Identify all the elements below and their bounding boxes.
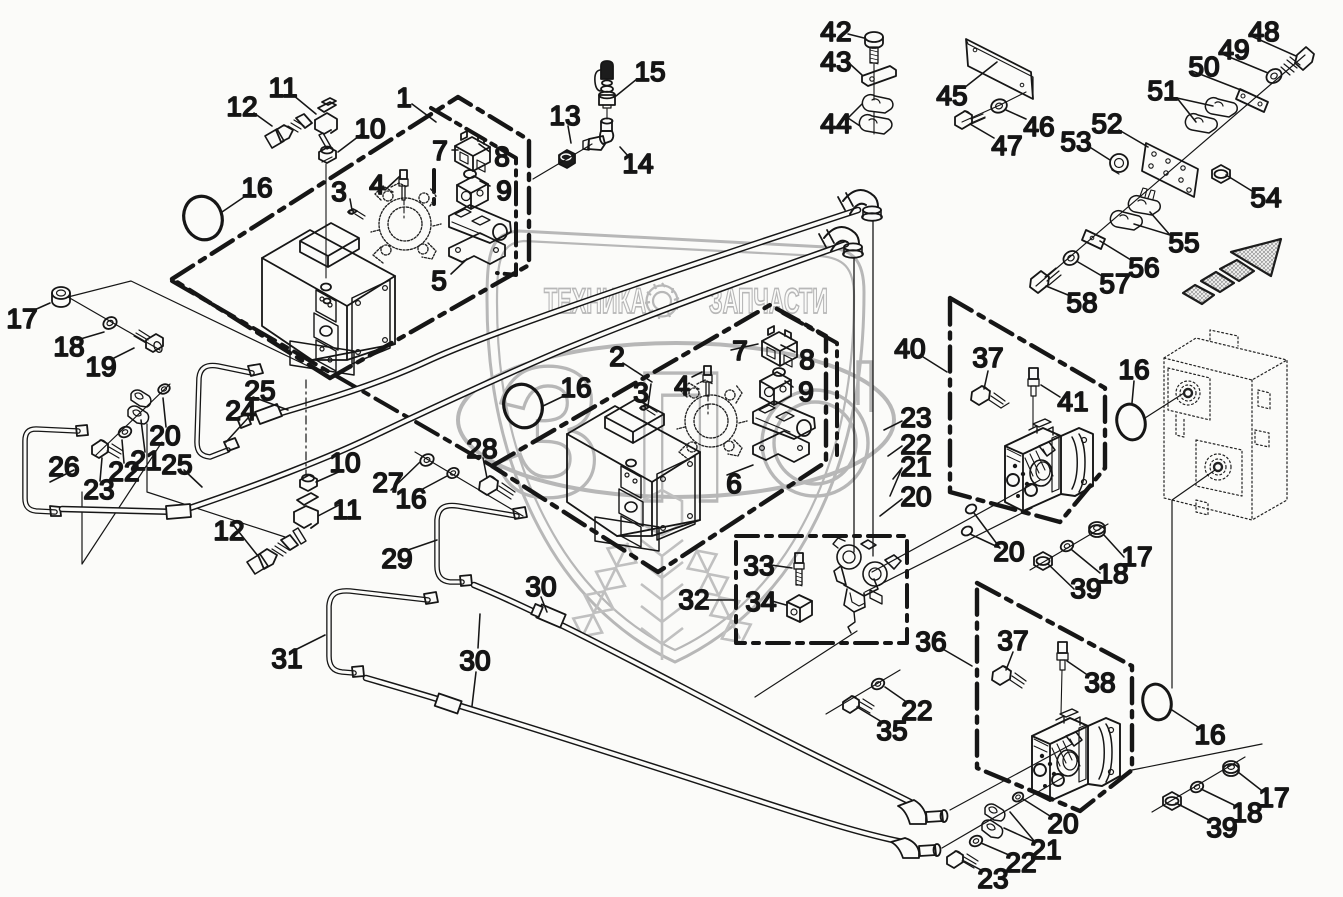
- svg-text:16: 16: [395, 483, 426, 514]
- stem 15 to 14: [606, 109, 608, 119]
- axis line 58-48: [1036, 55, 1305, 286]
- bolt 19: [134, 330, 164, 354]
- axis line 27-28-tube29: [415, 452, 523, 516]
- part 7/8 solenoid group1: [455, 131, 490, 172]
- valve body group2: [753, 401, 815, 439]
- svg-text:21: 21: [130, 445, 161, 476]
- svg-text:41: 41: [1057, 386, 1088, 417]
- drop line elbow A to valve assembly: [872, 221, 874, 556]
- fitting 15: [595, 61, 615, 108]
- valve block 1: [262, 223, 395, 375]
- centerline part4 group1: [403, 200, 405, 218]
- svg-text:4: 4: [674, 370, 690, 401]
- bolt 42: [865, 32, 883, 64]
- svg-text:26: 26: [48, 451, 79, 482]
- elbow 14: [583, 118, 613, 150]
- bolt 23 bottom: [947, 851, 978, 868]
- group 1 inner bracket: [431, 108, 516, 275]
- bolt 33: [794, 553, 804, 586]
- elbow 11 lower: [293, 493, 318, 544]
- axis lines hoses30 to pump B: [942, 744, 1072, 848]
- tube 26 (bent pipe): [25, 429, 78, 512]
- bracket V line lower-left: [82, 442, 162, 564]
- hose 25 lower crimp fitting: [166, 504, 191, 519]
- crimp on hose 30a: [531, 602, 566, 627]
- bolt 35: [843, 696, 874, 713]
- svg-text:1: 1: [396, 82, 412, 113]
- svg-text:56: 56: [1128, 252, 1159, 283]
- fitting 12 lower: [247, 535, 298, 574]
- O-ring 16 group2: [498, 379, 548, 433]
- axis line 17-19: [68, 297, 160, 350]
- svg-text:13: 13: [549, 100, 580, 131]
- svg-text:31: 31: [271, 643, 302, 674]
- nut 39 pump A: [1034, 552, 1052, 570]
- svg-text:42: 42: [820, 16, 851, 47]
- svg-text:21: 21: [900, 451, 931, 482]
- tube 26 end nuts: [50, 425, 88, 516]
- centerline to fitting 10 lower: [305, 380, 307, 474]
- washer 27: [418, 452, 436, 468]
- svg-text:19: 19: [85, 351, 116, 382]
- svg-text:10: 10: [329, 447, 360, 478]
- watermark shield inner: [497, 241, 854, 650]
- svg-text:9: 9: [496, 175, 512, 206]
- centerline part4 group2: [707, 396, 709, 414]
- hose 30 upper elbow end: [898, 800, 948, 824]
- hose 30 upper: [474, 585, 918, 806]
- svg-text:47: 47: [991, 130, 1022, 161]
- svg-text:25: 25: [161, 449, 192, 480]
- tube 29 (bent pipe): [437, 506, 517, 582]
- washer 46: [989, 97, 1008, 115]
- tank leader vertical: [1172, 470, 1215, 688]
- washer 18 bottom: [1189, 780, 1205, 795]
- plate 43: [862, 66, 896, 86]
- elbow fitting top A: [838, 190, 882, 221]
- ghost pump face group2 (dotted): [677, 380, 747, 460]
- group 2 inner bracket right edge: [783, 313, 837, 455]
- svg-text:5: 5: [431, 265, 447, 296]
- svg-text:22: 22: [901, 695, 932, 726]
- group box 36 (dash-dot): [977, 583, 1132, 811]
- washer 49: [1264, 66, 1285, 86]
- svg-text:6: 6: [726, 468, 742, 499]
- link line box1 to box2: [172, 281, 492, 466]
- svg-text:8: 8: [799, 344, 815, 375]
- watermark wheat emblem: [568, 490, 756, 660]
- nut 54: [1212, 165, 1230, 183]
- clamp 44 lower: [859, 115, 892, 134]
- fitting 10 lower: [300, 475, 317, 492]
- ring 16 small: [445, 466, 460, 480]
- svg-text:24: 24: [225, 395, 256, 426]
- axis line 13-14: [533, 144, 592, 179]
- svg-text:3: 3: [331, 176, 347, 207]
- svg-text:29: 29: [381, 543, 412, 574]
- part 6 bracket group2: [753, 431, 809, 462]
- svg-text:22: 22: [1005, 847, 1036, 878]
- svg-text:30: 30: [459, 645, 490, 676]
- fitting 41: [1028, 368, 1039, 428]
- drop line elbow B to valve assembly: [853, 258, 855, 552]
- plate 52: [1142, 143, 1198, 197]
- svg-text:44: 44: [820, 108, 851, 139]
- svg-text:10: 10: [354, 113, 385, 144]
- group box 2 (dash-dot): [492, 305, 826, 572]
- washer 18 pump A: [1059, 539, 1075, 554]
- group box 32 (dashed rectangle): [736, 536, 907, 643]
- svg-text:2: 2: [609, 341, 625, 372]
- svg-text:20: 20: [993, 536, 1024, 567]
- svg-text:48: 48: [1248, 16, 1279, 47]
- fitting 38: [1057, 642, 1068, 714]
- svg-text:51: 51: [1147, 75, 1178, 106]
- svg-text:3: 3: [633, 377, 649, 408]
- watermark big letters ZPCH: [494, 328, 871, 541]
- svg-text:16: 16: [1194, 719, 1225, 750]
- svg-text:20: 20: [900, 481, 931, 512]
- bracket line 17 to block: [68, 281, 310, 367]
- tube 31 (bent pipe): [329, 591, 428, 673]
- svg-text:37: 37: [997, 625, 1028, 656]
- line asm to hose30: [755, 631, 857, 697]
- tank (dotted ghost): [1164, 330, 1287, 520]
- svg-text:9: 9: [798, 376, 814, 407]
- svg-text:15: 15: [634, 56, 665, 87]
- tube 24 end fittings: [224, 364, 263, 451]
- clamp 55 upper: [1128, 196, 1160, 215]
- valve block 2: [567, 399, 700, 551]
- elbow 11 top-left: [315, 98, 337, 149]
- svg-text:43: 43: [820, 46, 851, 77]
- part 4 group2: [703, 366, 712, 396]
- leader O-ring to tank boss: [1145, 393, 1184, 418]
- part 4 group1 (small fitting): [399, 170, 408, 200]
- bolt 58: [1030, 268, 1061, 293]
- svg-text:12: 12: [213, 515, 244, 546]
- svg-text:17: 17: [1258, 782, 1289, 813]
- washer 18: [101, 315, 119, 332]
- svg-text:7: 7: [432, 135, 448, 166]
- watermark oval ring: [458, 343, 894, 497]
- washer 20 bottom: [1011, 791, 1025, 804]
- part 3 group2: [640, 405, 657, 415]
- svg-text:23: 23: [977, 863, 1008, 894]
- svg-text:32: 32: [678, 584, 709, 615]
- svg-text:8: 8: [494, 141, 510, 172]
- hose 30 lower elbow end: [891, 838, 941, 858]
- svg-text:39: 39: [1070, 573, 1101, 604]
- plate 50: [1236, 89, 1268, 112]
- hose 25 upper (to top-right elbow): [267, 210, 858, 417]
- centerline 10 to block: [325, 164, 327, 278]
- nut 13: [559, 150, 575, 168]
- fitting 10 top-left: [319, 147, 336, 164]
- svg-text:57: 57: [1099, 268, 1130, 299]
- svg-text:17: 17: [6, 303, 37, 334]
- part 7/8 solenoid group2: [762, 326, 797, 367]
- plate 45: [966, 39, 1033, 99]
- svg-text:4: 4: [369, 169, 385, 200]
- cube 34: [787, 595, 812, 622]
- watermark title text: [544, 283, 828, 321]
- O-ring 16 pump A: [1113, 401, 1149, 443]
- stack axis 20-23: [95, 384, 170, 456]
- grommet 17 pump A: [1089, 522, 1105, 537]
- svg-text:37: 37: [972, 342, 1003, 373]
- svg-text:45: 45: [936, 80, 967, 111]
- elbow fitting top B: [819, 227, 863, 258]
- clamp 55 lower: [1110, 211, 1142, 230]
- watermark gear: [645, 283, 679, 319]
- watermark shield outer: [458, 231, 894, 662]
- washer 22 bottom: [968, 834, 984, 849]
- crimp on hose 30b: [435, 693, 462, 713]
- svg-text:16: 16: [1118, 354, 1149, 385]
- svg-text:49: 49: [1218, 34, 1249, 65]
- ghost pump face group1 (dotted): [371, 183, 441, 263]
- washer pair 20 pump A: [960, 503, 978, 538]
- clamp 21 pair left: [128, 390, 151, 424]
- svg-text:16: 16: [560, 372, 591, 403]
- bolt 47: [955, 111, 985, 129]
- svg-text:11: 11: [268, 72, 297, 103]
- svg-text:40: 40: [894, 333, 925, 364]
- nut 53: [1110, 154, 1128, 174]
- svg-text:28: 28: [466, 433, 497, 464]
- washer 22 at 35: [870, 677, 886, 692]
- part 3 group1 (small bolt): [348, 209, 365, 219]
- axis 39-17 pump A: [1030, 524, 1108, 570]
- svg-text:34: 34: [745, 586, 776, 617]
- clamp 51 upper: [1205, 98, 1237, 117]
- axis 39-17 bottom: [1152, 757, 1245, 812]
- bolt 48: [1281, 47, 1314, 75]
- group box 40 (dash-dot): [950, 298, 1105, 522]
- part 9 block group2: [760, 372, 791, 405]
- svg-text:52: 52: [1091, 108, 1122, 139]
- bolt 23 left: [92, 440, 123, 458]
- svg-text:16: 16: [241, 172, 272, 203]
- axis lines asm to pump A: [865, 480, 1040, 592]
- part 9 block group1: [457, 176, 488, 209]
- svg-text:53: 53: [1060, 126, 1091, 157]
- svg-text:33: 33: [743, 550, 774, 581]
- svg-text:11: 11: [332, 494, 361, 525]
- part 9 washer group2: [773, 368, 785, 376]
- nut 17 top-left: [52, 287, 70, 307]
- O-ring 16 group1: [178, 191, 228, 245]
- svg-text:7: 7: [732, 335, 748, 366]
- bracket line box36 to 17: [1132, 744, 1262, 770]
- bolt 28: [479, 476, 515, 499]
- clamp 21 pair bottom: [982, 804, 1005, 838]
- tube 24 (U pipe): [197, 366, 252, 458]
- bolt 37 pump A: [971, 386, 1009, 408]
- plate 56: [1082, 230, 1105, 249]
- svg-text:39: 39: [1206, 812, 1237, 843]
- svg-text:58: 58: [1066, 287, 1097, 318]
- O-ring 16 pump B: [1139, 681, 1175, 723]
- part 5 bracket group1: [449, 233, 505, 264]
- pump A: [1005, 419, 1093, 511]
- hose 30 lower: [366, 678, 908, 843]
- valve body group1: [449, 205, 511, 243]
- svg-text:54: 54: [1250, 182, 1281, 213]
- grommet 17 bottom: [1223, 761, 1239, 776]
- svg-text:18: 18: [1097, 558, 1128, 589]
- svg-text:30: 30: [525, 571, 556, 602]
- svg-text:36: 36: [915, 626, 946, 657]
- group box 1 (dash-dot parallelogram): [172, 97, 529, 378]
- hose 25 upper crimp fitting: [237, 404, 282, 428]
- hatched arrow: [1183, 239, 1281, 304]
- valve assembly 32: [833, 538, 901, 633]
- svg-text:50: 50: [1188, 51, 1219, 82]
- washer 22 left: [117, 425, 133, 440]
- svg-text:38: 38: [1084, 667, 1115, 698]
- svg-text:46: 46: [1023, 111, 1054, 142]
- svg-text:18: 18: [53, 331, 84, 362]
- fitting 12 top-left: [265, 114, 312, 148]
- nut 39 bottom: [1163, 792, 1181, 810]
- svg-text:12: 12: [226, 91, 257, 122]
- clamp 44 upper: [862, 95, 893, 113]
- svg-text:14: 14: [622, 148, 653, 179]
- hose 25 lower (tube26 to right elbow): [62, 244, 846, 512]
- washer 20 left: [157, 382, 172, 395]
- washer 57: [1061, 248, 1082, 268]
- clamp 51 lower: [1185, 114, 1217, 133]
- part 9 washer group1: [464, 170, 476, 178]
- pump B: [1032, 709, 1120, 801]
- bolt 37 pump B: [992, 666, 1026, 688]
- svg-text:55: 55: [1168, 227, 1199, 258]
- bracket line clamp to hose: [147, 424, 285, 537]
